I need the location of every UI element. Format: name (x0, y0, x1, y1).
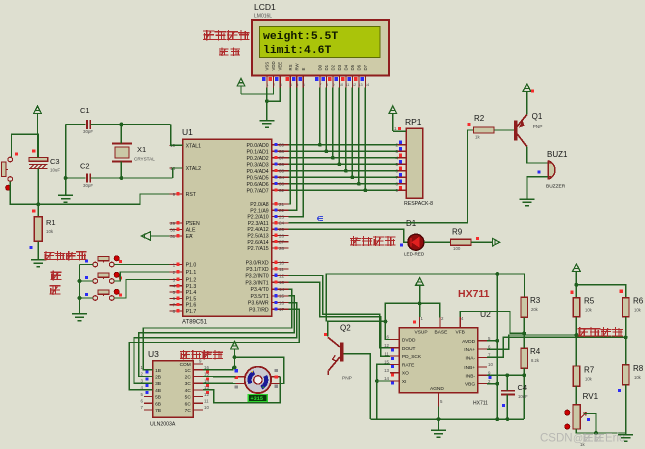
U3 pin 1B (144, 369, 153, 371)
wire RATE and XI to ground rail (377, 364, 390, 419)
svg-text:5B: 5B (155, 395, 161, 401)
svg-text:6B: 6B (155, 401, 161, 407)
svg-text:11: 11 (204, 399, 209, 404)
U1 pin P0.4/AD4 (272, 170, 289, 172)
wire P0.4 to RP1 (289, 170, 398, 172)
mcu U1 AT89C51 body (183, 139, 272, 316)
svg-text:BUZ1: BUZ1 (547, 150, 568, 159)
motor terminals (236, 377, 281, 384)
svg-text:10uF: 10uF (518, 394, 528, 399)
U2 top pin VFB (459, 317, 461, 328)
ground for bridge (618, 435, 633, 442)
ground for buzzer (520, 199, 535, 206)
svg-text:5C: 5C (185, 395, 192, 401)
svg-text:11: 11 (279, 267, 284, 272)
wire LCD D3 to P0.3 (338, 88, 340, 165)
svg-text:P2.5/A13: P2.5/A13 (247, 234, 268, 240)
junction VSUP power (418, 302, 422, 306)
svg-text:@: @ (573, 434, 583, 445)
svg-text:P3.0/RXD: P3.0/RXD (246, 261, 269, 267)
svg-text:6: 6 (173, 296, 176, 301)
junction node2 (624, 336, 628, 340)
U3 pin 6C (193, 402, 203, 404)
svg-text:VSUP: VSUP (415, 330, 428, 336)
wire P3.6 to U3 3B (134, 303, 297, 384)
svg-text:7C: 7C (185, 408, 192, 414)
wire Q1 collector to buzzer (527, 147, 548, 164)
U1 pin P3.7/RD (272, 308, 289, 310)
svg-text:C3: C3 (50, 157, 60, 166)
junction node1 (575, 333, 579, 337)
U1 pin P3.2/INT0 (272, 275, 289, 277)
wire AGND to rail (438, 407, 440, 420)
svg-text:R5: R5 (584, 297, 595, 306)
power arrow at EA pin (142, 232, 151, 241)
svg-text:27: 27 (279, 240, 285, 245)
svg-text:Eric: Eric (605, 433, 625, 445)
U3 pin 6B (144, 402, 153, 404)
U1 pin P3.5/T1 (272, 295, 289, 297)
wire R8 to ground net (625, 385, 627, 435)
wire C2 to XTAL2 (173, 168, 183, 178)
svg-text:28: 28 (279, 246, 285, 251)
wire R7 to RV1 (575, 386, 577, 406)
wire junction to R4 (523, 333, 525, 348)
U1 pin P2.6/A14 (272, 241, 289, 243)
wire RST net to U1 RST pin (38, 194, 169, 204)
svg-text:6: 6 (303, 83, 305, 87)
U3 pin 5B (144, 396, 153, 398)
wire reset button to RST net (10, 181, 38, 204)
svg-text:P3.5/T1: P3.5/T1 (251, 294, 269, 300)
stepper motor body (245, 367, 271, 393)
svg-text:INA+: INA+ (464, 347, 475, 353)
RP1 pin 1 wire (393, 130, 406, 132)
svg-text:PD_SCK: PD_SCK (402, 354, 422, 360)
svg-text:17: 17 (279, 307, 285, 312)
U1 pin P3.3/INT1 (272, 281, 289, 283)
svg-text:PNP: PNP (533, 124, 543, 130)
svg-text:P1.5: P1.5 (186, 296, 197, 302)
button reset (8, 157, 13, 162)
svg-text:7B: 7B (155, 408, 161, 414)
svg-text:10k: 10k (46, 229, 54, 234)
ground for LCD (259, 121, 274, 128)
U2 bottom pin AGND (438, 393, 440, 407)
svg-text:XO: XO (402, 371, 409, 377)
U2 top pin BASE (439, 317, 441, 328)
RP1 pin 3 (398, 150, 407, 152)
wire junction down to ground rail (496, 274, 498, 419)
U1 pin P1.2 (170, 279, 183, 281)
svg-text:P1.4: P1.4 (186, 290, 197, 296)
junction power dot2 (233, 366, 237, 370)
wire X1 bottom to C2 net (120, 162, 122, 179)
svg-text:22: 22 (279, 208, 285, 213)
ground for buttons (72, 314, 87, 321)
svg-text:13: 13 (358, 83, 362, 87)
svg-text:BUZZER: BUZZER (546, 184, 566, 190)
svg-text:1: 1 (266, 83, 268, 87)
power terminal HX711 VSUP (416, 278, 424, 286)
svg-text:32: 32 (279, 188, 285, 193)
svg-text:P1.7: P1.7 (186, 309, 197, 315)
svg-text:RV1: RV1 (583, 392, 599, 401)
wire Q2 emitter to VCC net (328, 321, 386, 336)
svg-text:31: 31 (170, 234, 176, 239)
svg-text:10: 10 (204, 405, 209, 410)
U1 pin P1.6 (170, 304, 183, 306)
svg-text:R9: R9 (452, 228, 463, 237)
ground for R1 (31, 260, 46, 267)
svg-text:RST: RST (186, 192, 197, 198)
svg-text:R7: R7 (584, 366, 595, 375)
wire LCD D7 to P0.7 (364, 88, 366, 191)
label stepper motor red text (180, 350, 191, 360)
svg-text:C4: C4 (518, 383, 528, 392)
svg-text:P3.7/RD: P3.7/RD (249, 307, 269, 313)
svg-text:D2: D2 (330, 64, 335, 70)
wire power to DVDD (385, 303, 419, 339)
wire R9 to terminal (471, 241, 493, 243)
wire power to reset button (12, 134, 38, 157)
wire P0.3 to RP1 (289, 163, 398, 165)
svg-text:LED-RED: LED-RED (404, 252, 425, 257)
power terminal bridge (573, 264, 581, 272)
svg-text:HX711: HX711 (473, 401, 488, 407)
svg-text:D3: D3 (337, 64, 342, 70)
svg-text:VEE: VEE (278, 62, 283, 71)
svg-text:12: 12 (204, 392, 209, 397)
U1 pin P0.1/AD1 (272, 150, 289, 152)
wire node2 to INA- (487, 337, 626, 357)
svg-text:+315: +315 (251, 396, 263, 402)
svg-text:10: 10 (279, 260, 285, 265)
button K1 add (93, 262, 98, 267)
wire LCD D1 to P0.1 (325, 88, 327, 152)
wire P3.7 to U3 4B (129, 309, 299, 390)
svg-text:20k: 20k (531, 307, 539, 312)
U2 pin RATE (390, 363, 399, 365)
svg-text:5: 5 (296, 83, 298, 87)
U1 pin P2.1/A9 (272, 209, 289, 211)
U1 pin P3.6/WR (272, 302, 289, 304)
U1 pin P2.2/A10 (272, 216, 289, 218)
RP1 pin 6 (398, 170, 407, 172)
U3 pin 5C (193, 396, 203, 398)
svg-text:10: 10 (488, 362, 493, 367)
wire button K2 to P1.1 (114, 272, 170, 281)
U2 pin XO (390, 372, 399, 374)
wire button K1 to P1.0 (114, 264, 170, 266)
svg-text:P3.1/TXD: P3.1/TXD (246, 267, 269, 273)
RP1 pin 2 (398, 144, 407, 146)
U1 pin P1.3 (170, 285, 183, 287)
label threshold red text (219, 47, 229, 56)
svg-text:11: 11 (345, 83, 349, 87)
wire C3 top to power (37, 134, 40, 158)
svg-text:PSEN: PSEN (186, 221, 200, 227)
svg-text:P1.2: P1.2 (186, 278, 197, 284)
svg-text:C2: C2 (80, 162, 90, 171)
svg-text:CSDN: CSDN (540, 433, 573, 445)
svg-text:34: 34 (279, 175, 285, 180)
label garbage weight red text (203, 30, 215, 40)
U1 pin P1.1 (170, 271, 183, 273)
junction bridge power (575, 283, 579, 287)
svg-text:E: E (301, 68, 306, 71)
svg-text:39: 39 (279, 143, 285, 148)
svg-text:RATE: RATE (402, 362, 414, 368)
wire bus to button terminals (80, 264, 93, 266)
svg-text:1: 1 (394, 126, 397, 131)
LCD LM016L body (252, 20, 389, 75)
svg-text:CRYSTAL: CRYSTAL (134, 157, 155, 162)
label garbage push red text (44, 251, 55, 260)
label add red text (51, 271, 62, 281)
svg-text:PNP: PNP (342, 376, 352, 382)
svg-text:30pF: 30pF (83, 129, 93, 134)
wire D1 to R9 (424, 241, 451, 243)
U1 pin P1.5 (170, 297, 183, 299)
wire R4 bottom to rail (523, 368, 525, 419)
wire power to R5 (575, 285, 577, 298)
svg-text:2: 2 (273, 83, 275, 87)
svg-text:EA: EA (186, 234, 193, 240)
wire P3.5 to U3 2B (139, 296, 295, 377)
svg-text:3: 3 (173, 277, 176, 282)
svg-text:P0.5/AD5: P0.5/AD5 (246, 175, 268, 181)
wire P0.6 to RP1 (289, 183, 398, 185)
U3 pin 7C (193, 409, 203, 411)
svg-text:VBG: VBG (465, 382, 475, 388)
svg-text:38: 38 (279, 149, 285, 154)
wire power junction to BASE (420, 303, 440, 316)
wire X1 top to C1 net (120, 125, 122, 144)
svg-text:14: 14 (279, 287, 285, 292)
svg-text:2B: 2B (155, 375, 161, 381)
svg-text:100: 100 (453, 246, 461, 251)
svg-text:LM016L: LM016L (254, 14, 272, 20)
U1 pin P1.4 (170, 291, 183, 293)
U2 pin XI (390, 380, 399, 382)
U1 pin XTAL2 (170, 167, 183, 169)
U3 pin 2B (144, 376, 153, 378)
wire LCD D2 to P0.2 (332, 88, 334, 158)
U3 pin 1C (193, 369, 203, 371)
U1 pin P2.5/A13 (272, 235, 289, 237)
wire P3.3 to HX711 PD_SCK (289, 282, 391, 356)
U1 pin ALE (170, 229, 183, 231)
wire LCD D4 to P0.4 (345, 88, 347, 171)
wire RV1 bottom to ground net (576, 429, 625, 433)
svg-text:3C: 3C (185, 381, 192, 387)
svg-text:12: 12 (279, 273, 285, 278)
svg-text:5: 5 (173, 290, 176, 295)
svg-text:D7: D7 (363, 64, 368, 70)
svg-text:3: 3 (280, 83, 282, 87)
svg-text:AVDD: AVDD (462, 339, 476, 345)
svg-text:P2.3/A11: P2.3/A11 (248, 221, 269, 227)
U1 pin RST (170, 193, 183, 195)
chip U3 ULN2003A body (153, 361, 194, 418)
svg-text:10uF: 10uF (50, 168, 60, 173)
svg-text:7: 7 (173, 303, 176, 308)
svg-text:29: 29 (170, 221, 176, 226)
svg-text:10k: 10k (585, 377, 593, 382)
wire power to R6 (576, 285, 625, 298)
U3 pin COM (193, 363, 203, 365)
junction VSS/VEE (265, 99, 269, 103)
svg-text:10k: 10k (585, 308, 593, 313)
U1 pin P0.0/AD0 (272, 144, 289, 146)
svg-text:R1: R1 (46, 218, 56, 227)
svg-text:1k: 1k (475, 135, 480, 140)
wire node1 to INA+ (487, 335, 576, 349)
svg-text:U2: U2 (480, 309, 491, 319)
ground for U2 (431, 430, 446, 437)
svg-text:LCD1: LCD1 (254, 2, 276, 12)
svg-text:D5: D5 (350, 64, 355, 70)
svg-text:limit:4.6T: limit:4.6T (263, 45, 332, 57)
svg-text:21: 21 (279, 202, 285, 207)
U1 pin P3.1/TXD (272, 268, 289, 270)
svg-text:13: 13 (384, 368, 389, 373)
label sub red text (50, 285, 61, 295)
U2 pin INA- (478, 356, 487, 358)
svg-text:DOUT: DOUT (402, 346, 416, 352)
svg-text:P0.0/AD0: P0.0/AD0 (246, 143, 268, 149)
svg-text:3B: 3B (155, 381, 161, 387)
motor rpm display (248, 395, 267, 402)
wire R3 to junction (523, 317, 525, 333)
svg-text:AGND: AGND (430, 386, 444, 392)
svg-text:VFB: VFB (456, 330, 465, 336)
svg-text:P1.0: P1.0 (186, 263, 197, 269)
U1 pin P1.0 (170, 264, 183, 266)
svg-text:6C: 6C (185, 401, 192, 407)
svg-text:P2.4/A12: P2.4/A12 (247, 227, 268, 233)
svg-text:P3.3/INT1: P3.3/INT1 (245, 280, 268, 286)
U1 pin P1.7 (170, 310, 183, 312)
chip U2 HX711 body (399, 328, 477, 393)
svg-text:XI: XI (402, 379, 407, 385)
wire buttons common bus to ground (79, 265, 81, 314)
svg-text:U1: U1 (182, 127, 193, 137)
wire C1 to XTAL1 (171, 125, 183, 146)
wire VDD to power (241, 88, 274, 94)
wire VCC line to R3 top (326, 274, 524, 321)
svg-text:P2.0/A8: P2.0/A8 (250, 202, 269, 208)
U2 top pin VSUP (419, 317, 421, 328)
wire P0.7 to RP1 (289, 189, 398, 191)
RP1 pin 9 (398, 189, 407, 191)
wire LCD E to P2.2 (289, 88, 304, 217)
wire R2 to Q1 base (494, 129, 514, 131)
wire VSS VEE to ground (266, 88, 268, 121)
wire P0.0 to RP1 (289, 144, 398, 146)
svg-text:P1.3: P1.3 (186, 284, 197, 290)
svg-text:P2.7/A15: P2.7/A15 (247, 246, 268, 252)
junction RST net (36, 202, 40, 206)
wire node1 to R7 (575, 335, 577, 366)
U3 pin 4B (144, 389, 153, 391)
U3 pin 3B (144, 382, 153, 384)
svg-text:R6: R6 (633, 297, 644, 306)
svg-text:24: 24 (279, 221, 285, 226)
svg-text:RW: RW (294, 62, 299, 70)
U2 pin AVDD (478, 340, 487, 342)
svg-text:P1.6: P1.6 (186, 303, 197, 309)
svg-text:35: 35 (279, 169, 285, 174)
svg-text:COM: COM (180, 362, 191, 368)
wire P0.2 to RP1 (289, 157, 398, 159)
wire C1 C2 common bus (65, 125, 67, 196)
wire LCD D5 to P0.5 (351, 88, 353, 178)
wire U3 2C to motor LT (203, 376, 236, 378)
svg-text:7: 7 (319, 83, 321, 87)
junction R3 rail (495, 272, 499, 276)
U2 pin DOUT (390, 347, 399, 349)
svg-text:ULN2003A: ULN2003A (150, 422, 176, 428)
wire LCD RW to P2.1 (289, 88, 297, 211)
svg-text:P0.3/AD3: P0.3/AD3 (246, 162, 268, 168)
svg-text:4B: 4B (155, 388, 161, 394)
U1 pin P3.4/T0 (272, 288, 289, 290)
U1 pin P3.0/RXD (272, 262, 289, 264)
svg-text:37: 37 (279, 156, 285, 161)
svg-text:8: 8 (326, 83, 328, 87)
wire U3 4C to motor RT (203, 377, 280, 403)
svg-text:D0: D0 (317, 64, 322, 70)
svg-text:1C: 1C (185, 368, 192, 374)
svg-text:2: 2 (173, 270, 176, 275)
svg-text:RESPACK-8: RESPACK-8 (404, 201, 433, 207)
svg-text:26: 26 (279, 233, 285, 238)
svg-text:2C: 2C (185, 375, 192, 381)
ground rail under U2 (370, 418, 524, 420)
U1 pin P0.5/AD5 (272, 176, 289, 178)
svg-text:1: 1 (173, 262, 176, 267)
svg-text:VDD: VDD (271, 61, 276, 70)
svg-text:P2.6/A14: P2.6/A14 (247, 240, 268, 246)
svg-text:D1: D1 (324, 64, 329, 70)
U1 pin P2.3/A11 (272, 222, 289, 224)
svg-text:4: 4 (173, 284, 176, 289)
ground for crystal caps (58, 195, 73, 202)
svg-text:ALE: ALE (186, 228, 196, 234)
U1 pin XTAL1 (170, 144, 183, 146)
LCD screen (259, 27, 380, 58)
watermark CSDN (540, 433, 625, 445)
U1 pin PSEN (170, 222, 183, 224)
svg-text:P0.7/AD7: P0.7/AD7 (246, 188, 268, 194)
power terminal reset (34, 106, 42, 114)
svg-text:R3: R3 (530, 296, 541, 305)
wire P0.1 to RP1 (289, 150, 398, 152)
U1 pin P2.4/A12 (272, 228, 289, 230)
svg-text:P2.2/A10: P2.2/A10 (247, 215, 268, 221)
U3 pin 3C (193, 382, 203, 384)
svg-text:25: 25 (279, 227, 285, 232)
power terminal RP1 (389, 106, 397, 114)
wire VBG to net (487, 383, 497, 385)
svg-text:Q2: Q2 (340, 324, 351, 333)
svg-text:INA-: INA- (465, 355, 475, 361)
wire power to motor RB (235, 357, 284, 383)
wire node2 to R8 (625, 337, 627, 364)
U2 pin INB+ (478, 366, 487, 368)
